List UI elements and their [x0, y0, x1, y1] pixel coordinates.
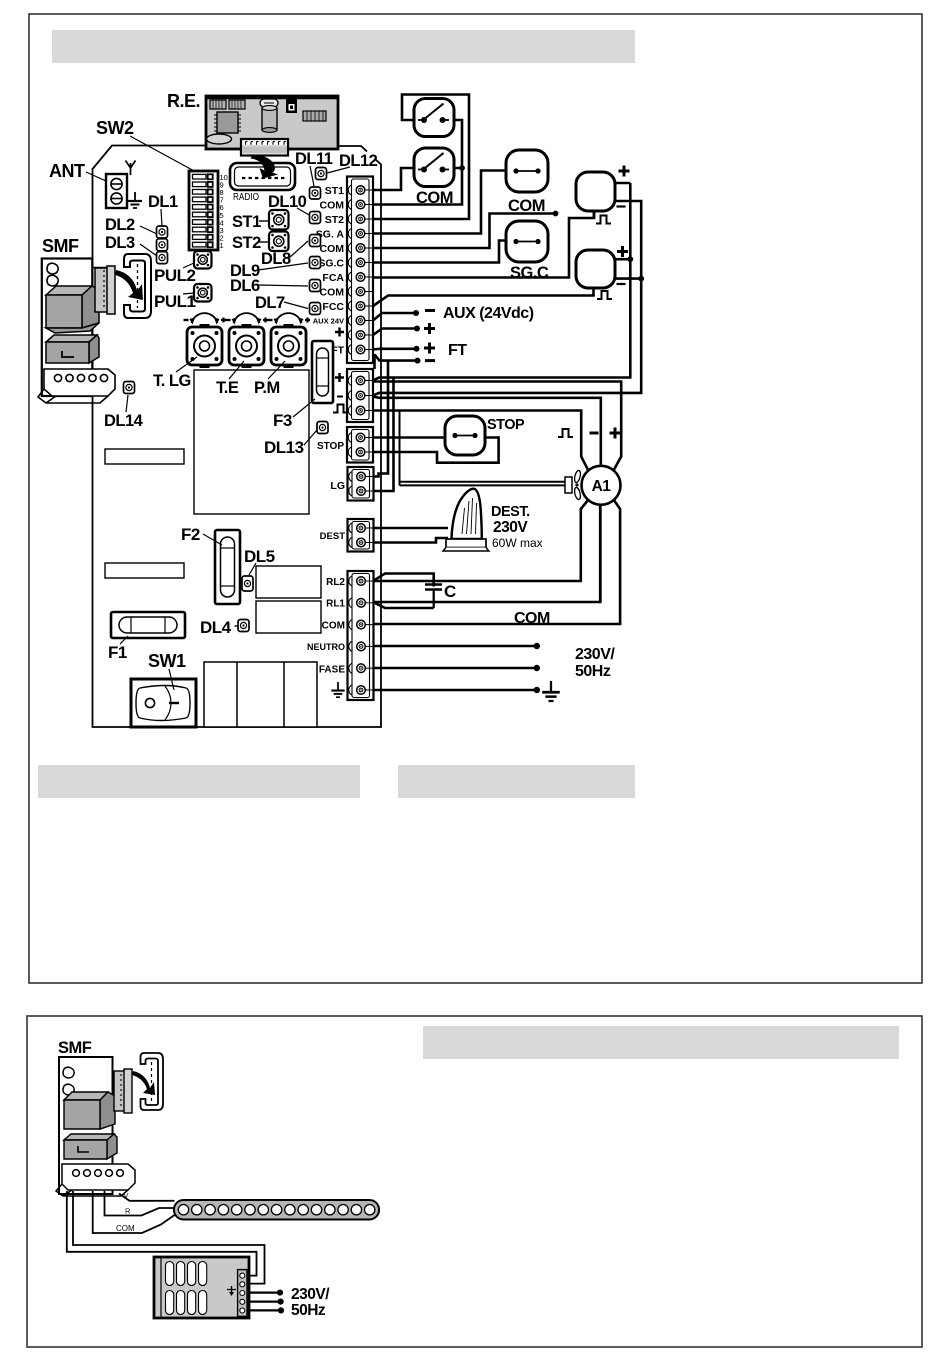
- svg-text:P.M: P.M: [254, 379, 280, 397]
- LED bar with 15 holes: [174, 1200, 379, 1220]
- leader SW1: [169, 669, 174, 690]
- svg-text:ST2: ST2: [325, 214, 344, 226]
- svg-text:A1: A1: [592, 478, 612, 495]
- trimmer potentiometer T.LG: [184, 313, 227, 368]
- pulse symbol lamp2: [597, 291, 612, 299]
- earth symbol at mains: [542, 681, 560, 701]
- wire supply 2: [73, 1191, 265, 1284]
- wire LG2 riser: [373, 378, 394, 492]
- module IC chip: [214, 112, 241, 133]
- pulse symbol lamp1: [596, 216, 611, 224]
- fuse F3: [312, 341, 333, 403]
- terminal strip X2 (+ - pulse): [347, 369, 373, 422]
- insertion arrow (bottom): [132, 1071, 155, 1095]
- module crystal: [303, 111, 326, 121]
- plus sign: [335, 373, 344, 382]
- leader DL8: [289, 241, 308, 258]
- STOP button: [445, 416, 485, 455]
- pulse label for X2: [333, 405, 348, 413]
- svg-text:PUL2: PUL2: [154, 266, 196, 285]
- outer frame bottom figure: [27, 1016, 922, 1347]
- N.O. contact button 2 (lower): [414, 148, 454, 187]
- push-button PUL1: [194, 284, 212, 302]
- svg-text:COM: COM: [116, 1224, 135, 1233]
- svg-text:SMF: SMF: [42, 236, 79, 256]
- LED DL1: [157, 226, 168, 238]
- svg-text:SG.C: SG.C: [318, 258, 344, 270]
- svg-text:C: C: [444, 582, 456, 601]
- mounting bracket: [124, 254, 151, 318]
- svg-text:50Hz: 50Hz: [575, 663, 611, 680]
- outer frame top figure: [29, 14, 922, 983]
- pulse symbol at motor: [558, 429, 573, 437]
- plus sign: [335, 328, 344, 337]
- svg-text:FASE: FASE: [319, 665, 345, 676]
- mounting bracket (bottom): [141, 1053, 164, 1110]
- svg-text:COM: COM: [320, 200, 345, 212]
- wire SG.A: [373, 171, 506, 234]
- svg-text:DEST: DEST: [320, 531, 346, 542]
- leader SW2: [130, 136, 196, 172]
- title bar top: [52, 30, 635, 63]
- FT+ endpoint: [414, 346, 420, 352]
- LED DL4: [238, 620, 249, 632]
- trimmer potentiometer P.M: [268, 313, 311, 368]
- housing screw hole B (bottom): [63, 1084, 74, 1095]
- LED DL14: [124, 382, 135, 394]
- leader DL7: [284, 302, 308, 309]
- svg-text:DL4: DL4: [200, 618, 232, 637]
- svg-text:R.E.: R.E.: [167, 91, 200, 111]
- svg-text:COM: COM: [320, 243, 345, 255]
- component bar B: [105, 563, 184, 578]
- housing screw hole B: [47, 275, 58, 286]
- minus AUX: [425, 309, 435, 312]
- wire LG1 riser: [373, 361, 388, 477]
- terminal strip X6 mains: [348, 571, 374, 700]
- svg-text:ANT: ANT: [49, 161, 85, 181]
- courtesy light DEST: [443, 489, 489, 551]
- push-button ST1: [269, 210, 289, 230]
- leader T.E: [229, 361, 244, 379]
- wire STOP1: [373, 436, 450, 439]
- LED DL2: [157, 239, 168, 251]
- fuse F1: [111, 612, 185, 638]
- housing screw hole A: [47, 263, 58, 274]
- push-button ST2: [269, 232, 289, 252]
- svg-text:STOP: STOP: [487, 417, 525, 433]
- svg-text:T.E: T.E: [216, 379, 239, 397]
- endpoint earth: [278, 1307, 284, 1313]
- svg-text:SW2: SW2: [96, 118, 134, 138]
- leader F2: [203, 534, 222, 545]
- leader ANT: [86, 172, 106, 181]
- svg-text:50Hz: 50Hz: [291, 1302, 326, 1319]
- svg-text:230V: 230V: [493, 519, 528, 536]
- LED DL5 (vertical): [242, 576, 253, 591]
- FASE endpoint: [534, 665, 540, 671]
- svg-text:DL14: DL14: [104, 412, 144, 430]
- svg-text:60W max: 60W max: [492, 536, 543, 550]
- leader DL5: [249, 563, 256, 575]
- insertion arrow SMF: [115, 270, 143, 300]
- trimmer potentiometer T.E: [226, 313, 269, 368]
- power supply PSU: [154, 1257, 249, 1318]
- svg-text:COM: COM: [320, 287, 345, 299]
- caption bar right: [398, 765, 635, 798]
- PSU earth mark: [227, 1286, 236, 1296]
- insertion arrow into RADIO socket: [251, 155, 279, 178]
- leader DL4: [235, 625, 239, 627]
- wire AUX-: [373, 313, 416, 321]
- SMF relay block 1: [46, 286, 99, 333]
- bracket dashed line: [137, 264, 139, 308]
- wire RL2 capacitor branch: [373, 574, 434, 587]
- wire RL1 capacitor branch: [373, 602, 434, 608]
- leader DL1: [161, 209, 162, 226]
- wire lamp minus rail: [373, 201, 641, 396]
- LED DL13: [317, 422, 328, 434]
- svg-text:DL11: DL11: [295, 150, 333, 168]
- fan symbol: [565, 470, 582, 500]
- motor bottom centre lead: [599, 505, 602, 602]
- leader DL6: [258, 285, 308, 286]
- component bar A: [105, 449, 184, 464]
- SMF connector housing outline: [42, 259, 93, 397]
- dip switch SW2: [189, 171, 218, 250]
- leader F3: [293, 399, 315, 417]
- wire RL2: [373, 500, 589, 582]
- wire motor centre feed: [373, 397, 601, 467]
- svg-text:F3: F3: [273, 411, 292, 430]
- wire DEST1: [373, 527, 448, 530]
- leader DL14: [126, 395, 128, 412]
- motor shaft lines: [400, 411, 567, 486]
- leader P.M: [268, 361, 285, 379]
- svg-text:230V/: 230V/: [575, 646, 615, 663]
- svg-text:T. LG: T. LG: [153, 372, 191, 390]
- wire FASE: [373, 667, 537, 670]
- svg-text:COM: COM: [514, 610, 550, 627]
- svg-text:STOP: STOP: [317, 441, 344, 452]
- svg-text:PUL1: PUL1: [154, 292, 196, 311]
- svg-text:ST1: ST1: [232, 213, 261, 231]
- svg-text:V: V: [124, 1191, 129, 1200]
- svg-text:ST1: ST1: [325, 185, 344, 197]
- FT- endpoint: [415, 358, 421, 364]
- svg-text:COM: COM: [508, 197, 545, 215]
- svg-text:NEUTRO: NEUTRO: [307, 642, 345, 652]
- svg-text:DL2: DL2: [105, 216, 135, 234]
- terminal strip X5 DEST: [348, 519, 374, 552]
- SMF board edge connector: [38, 369, 115, 403]
- wire motor left feed: [373, 411, 589, 471]
- lamp1 bottom lead: [593, 211, 596, 218]
- svg-text:FT: FT: [448, 342, 467, 359]
- svg-text:DL3: DL3: [105, 234, 135, 252]
- junction buttons common: [459, 165, 465, 171]
- svg-text:ST2: ST2: [232, 234, 261, 252]
- module electrolytic capacitor: [262, 106, 277, 133]
- module bottom pin connector: [241, 139, 292, 156]
- relay area rectangle: [194, 370, 309, 514]
- control board outline: [93, 146, 382, 728]
- wire lamp plus rail: [373, 183, 630, 381]
- LED DL9: [310, 257, 321, 269]
- transformer block: [204, 662, 317, 727]
- leader ST2: [259, 241, 268, 243]
- plus FT: [424, 343, 435, 354]
- module toggle switch: [286, 97, 297, 113]
- wire AUX+: [373, 329, 417, 336]
- N.C. button SG.C: [506, 221, 548, 262]
- power switch SW1: [131, 679, 196, 727]
- antenna terminal ANT: [106, 174, 127, 208]
- svg-text:FCC: FCC: [322, 301, 344, 313]
- antenna symbol: [126, 161, 136, 176]
- svg-text:DL8: DL8: [261, 250, 291, 268]
- SMF housing outline (bottom fig): [59, 1057, 113, 1194]
- relay box 1: [256, 566, 321, 598]
- wire FT-: [375, 354, 418, 369]
- svg-text:DL10: DL10: [268, 193, 307, 211]
- caption bar left: [38, 765, 360, 798]
- terminal strip X3 STOP: [347, 427, 373, 463]
- leader F1: [120, 636, 128, 644]
- svg-text:1: 1: [220, 241, 224, 250]
- svg-text:DL6: DL6: [230, 277, 260, 295]
- N.C. button COM: [506, 150, 548, 192]
- radio receiver module R.E.: [206, 96, 338, 149]
- svg-text:AUX (24Vdc): AUX (24Vdc): [443, 305, 534, 322]
- bracket dashed line (bottom): [151, 1062, 153, 1101]
- capacitor C: [425, 585, 442, 609]
- wire STOP2: [373, 438, 499, 463]
- junction COM2: [553, 211, 559, 217]
- minus at motor: [590, 432, 599, 435]
- svg-text:SMF: SMF: [58, 1039, 92, 1057]
- svg-text:AUX 24V: AUX 24V: [313, 317, 344, 326]
- LED DL3: [157, 252, 168, 264]
- AUX- endpoint: [413, 310, 419, 316]
- relay box 2: [256, 601, 321, 633]
- svg-text:SW1: SW1: [148, 651, 186, 671]
- wire V: [119, 1194, 175, 1201]
- leader DL12: [327, 167, 350, 173]
- PSU wire 1: [247, 1291, 280, 1293]
- leader DL11: [310, 166, 314, 186]
- leader DL3: [140, 244, 157, 256]
- junction lamp2 plus: [627, 256, 633, 262]
- wire FCC: [373, 288, 594, 306]
- wire COM2: [373, 214, 556, 249]
- wire R: [105, 1191, 175, 1216]
- N.O. contact button 1 (upper): [414, 99, 454, 137]
- module oval component: [207, 134, 232, 144]
- mating plug (bottom): [114, 1069, 132, 1113]
- LED DL6: [310, 280, 321, 292]
- leader ST1: [259, 220, 268, 222]
- wire supply 1: [67, 1191, 257, 1276]
- svg-text:DL1: DL1: [148, 193, 178, 211]
- wire motor plus: [373, 382, 621, 471]
- wire earth: [373, 689, 537, 692]
- ground label on X6: [331, 682, 344, 697]
- module pill switch: [260, 99, 278, 107]
- SMF mating plug: [95, 266, 115, 314]
- PSU wire 2: [247, 1300, 281, 1302]
- minus FT: [425, 359, 435, 362]
- relay block 1 (bottom): [64, 1092, 115, 1129]
- plus sign: [617, 246, 628, 257]
- svg-text:RADIO: RADIO: [233, 191, 259, 203]
- wire RL1: [373, 505, 600, 602]
- junction lamp2 minus: [638, 276, 644, 282]
- wire DEST2: [373, 538, 448, 543]
- module connector J2: [229, 100, 245, 109]
- SMF relay block 2: [46, 335, 99, 363]
- endpoint N: [278, 1299, 284, 1305]
- flashing lamp 1: [576, 172, 615, 211]
- wire ST2: [373, 95, 469, 220]
- plus at motor: [610, 428, 621, 439]
- minus sign: [337, 396, 343, 398]
- LED DL8: [310, 235, 321, 247]
- title bar bottom figure: [423, 1026, 899, 1059]
- wire SG.C: [373, 241, 506, 263]
- flashing lamp 2: [576, 250, 615, 288]
- wire FT+: [373, 347, 417, 350]
- push-button PUL2: [194, 251, 212, 269]
- fuse F2: [215, 530, 240, 604]
- leader DL13: [304, 430, 317, 445]
- RADIO socket connector: [230, 163, 295, 190]
- svg-text:DL5: DL5: [244, 547, 275, 566]
- leader PUL1: [183, 293, 194, 294]
- svg-text:FCA: FCA: [322, 272, 344, 284]
- housing screw hole A (bottom): [63, 1067, 74, 1078]
- edge connector (bottom): [56, 1164, 135, 1196]
- svg-text:230V/: 230V/: [291, 1286, 330, 1303]
- svg-text:F1: F1: [108, 643, 127, 662]
- LED DL7: [310, 303, 321, 315]
- svg-text:DL7: DL7: [255, 294, 285, 312]
- wire ST1: [373, 168, 414, 190]
- LED DL10: [310, 212, 321, 224]
- wire FCA: [373, 211, 594, 278]
- terminal strip X4 LG: [348, 467, 374, 501]
- LED DL11: [310, 187, 321, 199]
- minus lamp2: [617, 283, 626, 285]
- svg-text:DL12: DL12: [339, 152, 378, 170]
- leader DL9: [258, 263, 308, 270]
- leader DL10: [297, 208, 311, 216]
- minus lamp1: [617, 205, 626, 207]
- terminal strip X1 (ST1..FT): [347, 177, 373, 364]
- svg-text:RL1: RL1: [326, 599, 345, 610]
- relay block 2 (bottom): [64, 1134, 117, 1159]
- svg-text:SG.C: SG.C: [510, 264, 549, 282]
- NEUTRO endpoint: [534, 643, 540, 649]
- wire COM buttons: [373, 120, 462, 205]
- AUX+ endpoint: [414, 326, 420, 332]
- svg-text:RL2: RL2: [326, 577, 345, 588]
- ground symbol near ANT: [128, 192, 142, 208]
- svg-text:COM: COM: [322, 621, 345, 632]
- endpoint L: [277, 1290, 283, 1296]
- leader DL2: [140, 226, 157, 234]
- svg-text:DEST.: DEST.: [491, 504, 530, 520]
- plus sign: [619, 166, 630, 177]
- leader T.LG: [176, 357, 197, 372]
- wire COM motor: [373, 500, 620, 625]
- motor A1: [582, 466, 621, 505]
- svg-text:F2: F2: [181, 525, 200, 544]
- plus AUX: [424, 323, 435, 334]
- earth endpoint: [534, 687, 540, 693]
- svg-text:LG: LG: [330, 480, 345, 492]
- svg-text:COM: COM: [416, 189, 453, 207]
- svg-text:DL13: DL13: [264, 438, 304, 457]
- PSU wire 3: [247, 1309, 281, 1311]
- LED DL12: [316, 168, 327, 180]
- housing notch: [92, 268, 108, 280]
- module connector J1: [210, 100, 226, 109]
- leader PUL2: [183, 263, 194, 268]
- wire COM bottom: [93, 1191, 175, 1233]
- wire NEUTRO: [373, 645, 537, 648]
- svg-text:R: R: [125, 1207, 131, 1216]
